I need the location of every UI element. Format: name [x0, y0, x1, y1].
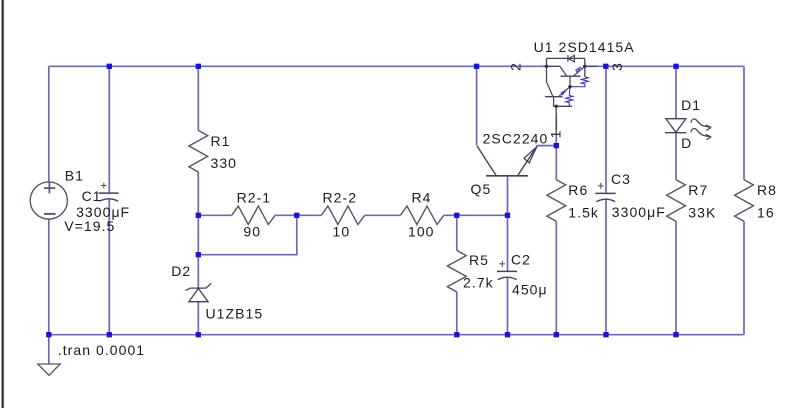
svg-text:D: D: [681, 135, 692, 151]
svg-text:R7: R7: [688, 182, 708, 198]
svg-text:3300μF: 3300μF: [612, 204, 666, 220]
svg-text:R5: R5: [469, 252, 489, 268]
svg-text:U1 2SD1415A: U1 2SD1415A: [534, 39, 635, 55]
svg-text:2.7k: 2.7k: [463, 275, 494, 291]
svg-text:.tran 0.0001: .tran 0.0001: [58, 342, 145, 358]
svg-text:16: 16: [757, 204, 775, 220]
svg-text:R4: R4: [412, 189, 432, 205]
svg-text:10: 10: [333, 224, 351, 240]
svg-text:1.5k: 1.5k: [568, 204, 599, 220]
svg-text:2: 2: [508, 63, 524, 71]
svg-text:D2: D2: [171, 263, 191, 279]
svg-text:R2-1: R2-1: [237, 189, 272, 205]
svg-text:2SC2240: 2SC2240: [483, 130, 549, 146]
svg-text:330: 330: [211, 155, 238, 171]
svg-text:1: 1: [547, 130, 563, 138]
svg-text:V=19.5: V=19.5: [64, 218, 115, 234]
svg-text:90: 90: [243, 224, 261, 240]
svg-text:Q5: Q5: [471, 181, 492, 197]
svg-text:R2-2: R2-2: [323, 189, 358, 205]
svg-text:450μ: 450μ: [512, 282, 548, 298]
svg-text:R1: R1: [211, 133, 231, 149]
svg-text:R6: R6: [568, 182, 588, 198]
svg-text:U1ZB15: U1ZB15: [206, 305, 264, 321]
svg-text:3: 3: [609, 63, 625, 71]
svg-text:C1: C1: [82, 188, 102, 204]
svg-text:100: 100: [408, 224, 435, 240]
svg-text:D1: D1: [681, 97, 701, 113]
svg-text:33K: 33K: [688, 204, 716, 220]
svg-text:R8: R8: [757, 182, 777, 198]
svg-text:B1: B1: [65, 168, 84, 184]
svg-text:C3: C3: [611, 171, 631, 187]
svg-text:C2: C2: [511, 252, 531, 268]
